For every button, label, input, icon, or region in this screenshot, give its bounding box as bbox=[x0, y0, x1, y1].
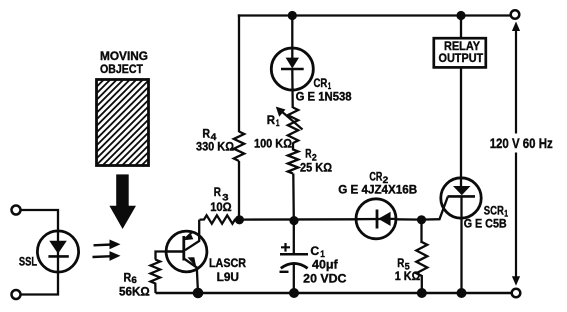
svg-text:OUTPUT: OUTPUT bbox=[439, 51, 484, 65]
svg-text:330 KΩ: 330 KΩ bbox=[196, 140, 234, 154]
node junction gate R5 bbox=[417, 215, 426, 224]
label R1 bbox=[267, 113, 280, 129]
thyristor SCR1 bbox=[441, 178, 481, 293]
svg-text:40μf: 40μf bbox=[312, 258, 339, 272]
svg-text:SCR: SCR bbox=[484, 204, 504, 218]
label R2 bbox=[305, 146, 317, 163]
svg-text:56KΩ: 56KΩ bbox=[119, 285, 150, 299]
label R5 bbox=[397, 256, 410, 272]
wire CR1 anode bbox=[291, 16, 293, 59]
capacitor C1 bbox=[280, 221, 309, 293]
resistor R5 bbox=[416, 220, 427, 293]
svg-text:CR: CR bbox=[369, 169, 382, 183]
wire R3 to LASCR bbox=[185, 220, 199, 251]
light ray arrow lower bbox=[93, 251, 121, 261]
wire bottom bus bbox=[156, 292, 512, 295]
node junction relay top bbox=[456, 11, 465, 20]
svg-text:120 V 60 Hz: 120 V 60 Hz bbox=[490, 136, 553, 151]
label SCR1 bbox=[484, 204, 509, 220]
svg-text:CR: CR bbox=[314, 76, 328, 90]
node junction R5 bottom bbox=[417, 288, 427, 298]
node junction R3 bus bbox=[235, 215, 244, 224]
terminal SSL bottom bbox=[12, 290, 21, 299]
svg-text:25 KΩ: 25 KΩ bbox=[300, 160, 332, 174]
lamp SSL bbox=[37, 231, 78, 272]
resistor R1 potentiometer bbox=[276, 107, 303, 143]
svg-text:G E 1N538: G E 1N538 bbox=[296, 89, 352, 103]
resistor R3 bbox=[200, 215, 240, 223]
node junction top CR1 bbox=[288, 11, 297, 20]
label R4 bbox=[202, 127, 217, 143]
node junction C1 top bbox=[289, 216, 298, 225]
wire SSL top bbox=[21, 210, 58, 232]
svg-text:OBJECT: OBJECT bbox=[100, 62, 143, 76]
svg-text:R: R bbox=[214, 185, 222, 199]
svg-text:1 KΩ: 1 KΩ bbox=[395, 269, 421, 283]
svg-text:R: R bbox=[124, 271, 132, 285]
arrow moving object bbox=[109, 174, 136, 229]
wire CR1 cathode bbox=[291, 69, 294, 108]
label CR2 bbox=[369, 169, 388, 185]
moving object hatched block bbox=[97, 80, 149, 166]
label C1 bbox=[310, 244, 325, 260]
terminal bottom right bbox=[512, 289, 521, 298]
node junction SCR1 bottom bbox=[457, 288, 467, 298]
svg-text:100 KΩ: 100 KΩ bbox=[254, 137, 292, 151]
svg-text:G E C5B: G E C5B bbox=[464, 217, 507, 231]
wire gate bus right bbox=[396, 218, 422, 221]
wire gate bus left bbox=[239, 218, 357, 221]
terminal top right bbox=[511, 10, 520, 19]
svg-text:R: R bbox=[202, 127, 210, 141]
source 120V arrow line bbox=[512, 22, 520, 286]
svg-text:G E 4JZ4X16B: G E 4JZ4X16B bbox=[338, 183, 417, 197]
svg-text:R: R bbox=[305, 146, 312, 160]
node junction LASCR cathode bbox=[193, 288, 204, 299]
wire R2 to gate bus bbox=[292, 174, 295, 222]
relay output box bbox=[434, 38, 486, 67]
wire top bus bbox=[238, 14, 511, 16]
svg-text:L9U: L9U bbox=[217, 270, 240, 284]
label R3 bbox=[214, 185, 229, 203]
wire gate to SCR1 bbox=[422, 197, 448, 220]
resistor R6 bbox=[151, 252, 167, 294]
label R6 bbox=[124, 271, 137, 286]
wire left branch lower bbox=[238, 161, 240, 220]
svg-text:20 VDC: 20 VDC bbox=[303, 271, 346, 285]
wire left branch upper bbox=[238, 14, 240, 132]
svg-text:SSL: SSL bbox=[19, 255, 38, 269]
wire SSL bottom bbox=[21, 272, 58, 295]
node junction C1 bottom bbox=[289, 288, 299, 298]
light ray arrow upper bbox=[94, 240, 121, 250]
svg-text:C: C bbox=[310, 244, 319, 258]
label CR1 bbox=[314, 76, 332, 92]
diode CR2 bbox=[356, 199, 396, 239]
svg-text:10Ω: 10Ω bbox=[210, 200, 232, 214]
transistor LASCR bbox=[166, 231, 207, 293]
svg-text:1: 1 bbox=[276, 118, 280, 129]
wire relay to SCR1 bbox=[460, 68, 462, 187]
wire relay top bbox=[460, 16, 462, 38]
resistor R2 bbox=[288, 143, 298, 174]
terminal SSL top bbox=[12, 206, 21, 215]
svg-text:LASCR: LASCR bbox=[209, 256, 246, 270]
svg-text:R: R bbox=[267, 113, 276, 127]
resistor R4 bbox=[234, 132, 244, 162]
diode CR1 bbox=[271, 48, 313, 90]
